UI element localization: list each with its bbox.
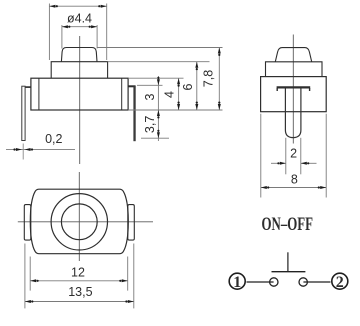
- step side: [266, 62, 323, 77]
- svg-text:1: 1: [233, 274, 241, 291]
- inner circle top view: [61, 204, 97, 240]
- dimension line 4: [178, 78, 180, 110]
- svg-text:6: 6: [181, 83, 195, 90]
- dimension line 7.8: [218, 48, 220, 111]
- reference line cap top: [97, 47, 223, 49]
- extension lines top unlabeled dimension: [49, 4, 106, 61]
- centerline side view: [292, 35, 294, 144]
- svg-text:3: 3: [143, 93, 157, 100]
- svg-text:3,7: 3,7: [143, 116, 157, 133]
- outer circle top view: [51, 194, 107, 250]
- dimension line 6: [196, 62, 198, 110]
- step (upper housing) front: [51, 62, 107, 78]
- centerline top view horizontal: [18, 221, 153, 223]
- dimension line 3 and 3,7: [157, 76, 159, 141]
- svg-text:12: 12: [71, 266, 85, 280]
- terminal marker 1: [229, 273, 245, 289]
- svg-text:ON–OFF: ON–OFF: [262, 214, 314, 235]
- switch symbol movable bar: [272, 271, 306, 273]
- svg-text:13,5: 13,5: [68, 285, 92, 299]
- svg-text:0,2: 0,2: [45, 132, 62, 146]
- reference line body top: [128, 77, 183, 79]
- extension lines dia 4.4: [62, 25, 97, 49]
- switch symbol actuator stem: [287, 252, 289, 271]
- dimension line dia 4.4: [62, 26, 97, 28]
- body inner edge left: [38, 78, 40, 110]
- reference line pin bottom: [141, 137, 169, 139]
- svg-text:4: 4: [163, 91, 177, 98]
- contact plate: [277, 86, 311, 88]
- left terminal pin: [22, 86, 25, 140]
- dimension line 2: [271, 162, 286, 164]
- right terminal nub: [128, 85, 136, 87]
- button cap side: [275, 48, 311, 62]
- dimension line 0,2: [6, 149, 75, 151]
- wire to terminal 1: [247, 281, 274, 283]
- switch contact right: [299, 278, 307, 286]
- extension lines 13,5: [25, 244, 134, 309]
- extension lines 12: [30, 257, 128, 291]
- wire to terminal 2: [303, 281, 330, 283]
- svg-text:ø4.4: ø4.4: [67, 11, 92, 25]
- right tab top view: [128, 205, 135, 241]
- pin centerline below 0,2: [22, 144, 24, 160]
- left tab top view: [24, 205, 31, 241]
- right terminal pin: [133, 86, 135, 141]
- svg-text:7,8: 7,8: [201, 70, 215, 87]
- reference line body bottom: [128, 109, 222, 111]
- centerline top view vertical: [78, 172, 80, 261]
- reference line pin top: [137, 84, 163, 86]
- centerline front view: [79, 36, 81, 164]
- pin side: [285, 89, 301, 138]
- body side: [261, 77, 327, 112]
- svg-text:8: 8: [291, 173, 298, 187]
- left terminal nub: [22, 86, 31, 88]
- svg-text:2: 2: [336, 274, 344, 291]
- dimension line top unlabeled: [49, 5, 106, 7]
- body inner edge right: [121, 78, 123, 110]
- top view body outline: [30, 189, 128, 254]
- svg-text:2: 2: [290, 147, 297, 161]
- extension lines 8: [261, 114, 326, 198]
- terminal marker 2: [332, 273, 348, 289]
- dimension line 12: [30, 280, 128, 282]
- dimension line 13,5: [25, 301, 134, 303]
- switch contact left: [270, 278, 278, 286]
- extension lines 2: [286, 138, 301, 175]
- body front: [31, 78, 128, 110]
- reference line step top: [108, 61, 210, 63]
- button cap front: [61, 48, 97, 62]
- dimension line 8: [261, 187, 326, 189]
